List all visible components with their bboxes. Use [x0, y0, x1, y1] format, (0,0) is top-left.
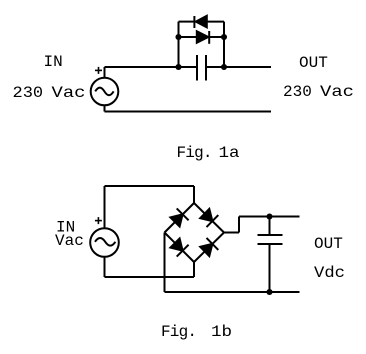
junction dots Fig.1a — [175, 34, 227, 70]
bridge edge left-top with diode D3 — [165, 203, 195, 233]
wire: left branch vertical — [178, 22, 180, 67]
svg-text:OUT: OUT — [314, 235, 343, 253]
svg-text:Vac: Vac — [55, 232, 84, 250]
junction dots Fig.1b — [266, 213, 272, 295]
capacitor C2 (smoothing) — [258, 217, 283, 293]
wire: negative return from left bridge node — [165, 233, 300, 293]
wire: top rail Fig.1a right of capacitor — [207, 66, 272, 68]
svg-text:1a: 1a — [219, 144, 241, 162]
svg-text:230: 230 — [13, 84, 44, 102]
AC source V2 (Vac input, Fig. 1b) — [90, 186, 119, 277]
plus polarity mark of V1 — [95, 67, 102, 74]
svg-text:Vac: Vac — [52, 84, 86, 102]
bridge edge top-right with diode D4 — [194, 203, 224, 233]
wire: middle diode row — [179, 36, 225, 38]
capacitor C1 (series) — [197, 55, 206, 81]
bridge edge left-bottom with diode D5 — [165, 233, 195, 263]
plus polarity mark of V2 — [95, 217, 102, 224]
svg-text:1b: 1b — [211, 323, 232, 341]
wire: top feed to bridge — [105, 186, 195, 203]
svg-text:230: 230 — [283, 83, 312, 101]
svg-text:Vac: Vac — [320, 83, 354, 101]
diode D1 (points left) — [194, 16, 206, 28]
svg-text:OUT: OUT — [299, 54, 328, 72]
wire: top rail Fig.1a left of capacitor — [105, 66, 197, 68]
wire: right branch vertical — [223, 22, 225, 67]
wire: top diode row — [179, 21, 225, 23]
wire: positive output jog from right bridge node — [224, 217, 300, 233]
svg-text:IN: IN — [44, 53, 63, 71]
bridge edge bottom-right with diode D6 — [194, 233, 224, 263]
svg-text:Fig.: Fig. — [161, 323, 196, 341]
wire: bottom feed to bridge — [105, 262, 195, 277]
AC source V1 (230 Vac input, Fig. 1a) — [91, 67, 119, 112]
wire: bottom rail Fig.1a — [105, 111, 272, 113]
svg-text:Vdc: Vdc — [314, 264, 345, 282]
svg-text:Fig.: Fig. — [177, 144, 212, 162]
diode D2 (points right) — [197, 31, 209, 44]
